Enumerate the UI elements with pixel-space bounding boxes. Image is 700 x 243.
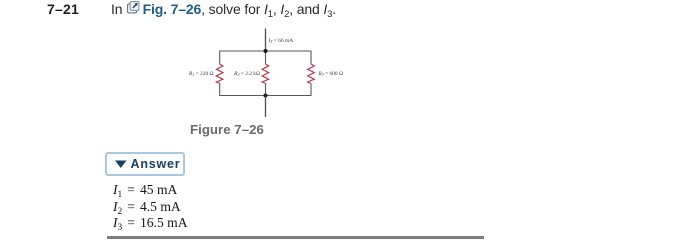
wire: bottom rail — [220, 95, 311, 97]
wire: left branch top lead — [219, 51, 221, 65]
problem number 7-21 — [47, 1, 79, 17]
wire: top feed stub — [265, 29, 267, 52]
wire: bottom return stub — [265, 96, 267, 118]
bottom rule — [107, 236, 484, 239]
svg-text:IT = 66 mA: IT = 66 mA — [268, 38, 294, 44]
answer button — [105, 152, 185, 176]
resistor R2 zigzag — [262, 64, 269, 84]
svg-text:R2 = 2.2 kΩ: R2 = 2.2 kΩ — [233, 71, 260, 77]
wire: right branch top lead — [310, 51, 312, 65]
figure caption — [190, 122, 264, 137]
answer values — [113, 182, 188, 232]
wire: middle branch bottom lead — [265, 84, 267, 96]
node: bottom junction — [264, 94, 268, 98]
wire: middle branch top lead — [265, 51, 267, 64]
svg-text:R3 = 600 Ω: R3 = 600 Ω — [318, 71, 343, 77]
wire: top rail — [220, 50, 311, 52]
resistor R1 zigzag — [216, 64, 223, 84]
resistor R3 zigzag — [308, 64, 315, 84]
problem statement line — [111, 1, 336, 17]
node: top junction — [264, 49, 268, 53]
external-link icon — [127, 1, 141, 14]
svg-text:R1 = 220 Ω: R1 = 220 Ω — [188, 71, 213, 77]
wire: right branch bottom lead — [310, 84, 312, 97]
wire: left branch bottom lead — [219, 84, 221, 97]
